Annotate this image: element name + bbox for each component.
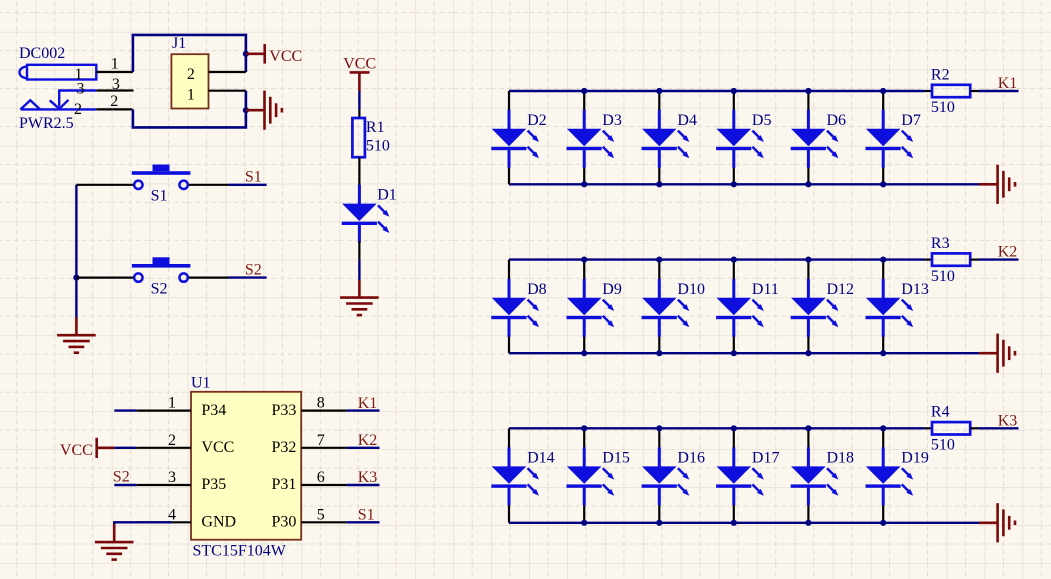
junction row R3 top col 6 (880, 257, 886, 263)
junction row R2 top col 5 (805, 88, 811, 94)
svg-text:510: 510 (931, 268, 955, 285)
LED D19 (866, 428, 914, 523)
junction row R3 top col 3 (656, 257, 662, 263)
junction row R4 top col 6 (880, 425, 886, 431)
wire D1 to ground (358, 259, 360, 280)
svg-text:1: 1 (111, 55, 119, 72)
U1 pin 7 (301, 447, 347, 449)
junction row R3 top col 2 (581, 257, 587, 263)
svg-text:6: 6 (317, 469, 325, 486)
svg-text:D19: D19 (901, 450, 929, 467)
junction row R2 bottom col 2 (581, 181, 587, 187)
resistor R4 pin 2 (970, 427, 978, 429)
resistor R1 pin 1 (358, 110, 360, 118)
LED D5 (716, 91, 764, 184)
svg-text:D10: D10 (677, 281, 705, 298)
resistor R2 body (932, 85, 970, 97)
U1 pin 5 (301, 521, 347, 523)
svg-text:P34: P34 (201, 402, 226, 419)
wire LED row R3 bottom rail (509, 352, 979, 354)
svg-text:K2: K2 (998, 244, 1018, 261)
svg-text:R3: R3 (931, 235, 950, 252)
svg-text:D3: D3 (602, 112, 622, 129)
wire net K1 (978, 90, 1018, 92)
wire net K1 (U1) (347, 409, 380, 411)
junction row R4 top col 4 (731, 425, 737, 431)
resistor R2 pin 1 (924, 90, 932, 92)
wire net S2 (U1 pin3) (114, 484, 136, 486)
resistor R3 pin 2 (970, 259, 978, 261)
wire LED row R2 top rail (509, 90, 924, 92)
wire net S2 (229, 276, 267, 278)
wire net K2 (U1) (347, 447, 380, 449)
svg-text:1: 1 (168, 395, 176, 412)
svg-text:D17: D17 (752, 450, 780, 467)
ground (row R2) (979, 165, 1015, 204)
resistor R3 pin 1 (924, 259, 932, 261)
junction row R4 bottom col 4 (731, 520, 737, 526)
push button S2 (132, 257, 191, 282)
svg-text:P35: P35 (201, 476, 226, 493)
U1 pin 4 (136, 521, 191, 523)
button S2 right pin (189, 277, 229, 279)
wire net K3 (978, 427, 1018, 429)
svg-text:D14: D14 (527, 450, 555, 467)
junction row R2 top col 4 (731, 88, 737, 94)
svg-text:3: 3 (168, 469, 176, 486)
junction row R3 bottom col 2 (581, 350, 587, 356)
svg-text:D8: D8 (527, 281, 547, 298)
LED D8 (491, 260, 539, 354)
junction row R3 bottom col 4 (731, 350, 737, 356)
wire VCC to R1 (358, 91, 360, 110)
junction row R4 top col 3 (656, 425, 662, 431)
svg-text:P31: P31 (271, 476, 296, 493)
svg-text:P30: P30 (271, 514, 296, 531)
U1 pin 1 (136, 410, 191, 412)
svg-text:DC002: DC002 (19, 45, 65, 62)
svg-text:VCC: VCC (343, 55, 376, 72)
wire net S1 (U1) (347, 521, 380, 523)
wire net K3 (U1) (347, 484, 380, 486)
junction row R2 bottom col 3 (656, 181, 662, 187)
svg-text:D2: D2 (527, 112, 547, 129)
ground (J1) (246, 91, 282, 130)
junction row R4 bottom col 6 (880, 520, 886, 526)
junction VCC node (243, 51, 249, 57)
LED D12 (791, 260, 839, 354)
resistor R4 pin 1 (924, 427, 932, 429)
resistor R3 body (932, 253, 970, 265)
DC002 pin 3 switch contact (50, 91, 97, 109)
svg-text:2: 2 (168, 432, 176, 449)
svg-text:K3: K3 (358, 469, 378, 486)
wire net K2 (978, 258, 1018, 260)
junction row R2 bottom col 6 (880, 181, 886, 187)
junction row R3 bottom col 6 (880, 350, 886, 356)
svg-text:2: 2 (187, 66, 195, 83)
ground (row R4) (979, 503, 1015, 542)
power VCC (U1 pin2) (97, 438, 115, 458)
junction row R4 bottom col 3 (656, 520, 662, 526)
svg-text:D9: D9 (602, 281, 622, 298)
wire LED row R2 bottom rail (509, 183, 979, 185)
junction GND node (243, 107, 249, 113)
svg-text:D15: D15 (602, 450, 630, 467)
junction row R3 bottom col 5 (805, 350, 811, 356)
svg-text:U1: U1 (191, 374, 211, 391)
svg-text:K2: K2 (358, 432, 378, 449)
DC002 pin 3 (96, 89, 133, 91)
LED D13 (866, 260, 914, 354)
wire LED row R3 top rail (509, 258, 924, 260)
connector DC002 barrel (19, 65, 96, 80)
svg-text:S1: S1 (358, 507, 375, 524)
LED D6 (791, 91, 839, 184)
svg-text:510: 510 (931, 99, 955, 116)
DC002 pin 1 (96, 71, 133, 73)
svg-text:K1: K1 (998, 75, 1018, 92)
ground (U1) (95, 524, 134, 559)
LED D14 (491, 428, 539, 523)
LED D7 (866, 91, 914, 184)
svg-text:STC15F104W: STC15F104W (193, 543, 287, 560)
svg-text:PWR2.5: PWR2.5 (19, 115, 74, 132)
svg-text:D5: D5 (752, 112, 772, 129)
svg-text:5: 5 (317, 506, 325, 523)
DC002 pin 2 sleeve (21, 100, 97, 109)
svg-text:D7: D7 (901, 112, 921, 129)
svg-text:D4: D4 (677, 112, 697, 129)
svg-text:S2: S2 (113, 469, 130, 486)
U1 pin 3 (136, 484, 191, 486)
svg-text:R4: R4 (931, 404, 950, 421)
IC U1 body (191, 392, 301, 540)
wire U1 pin 2 stub (114, 447, 136, 449)
U1 pin 6 (301, 484, 347, 486)
svg-text:J1: J1 (172, 35, 186, 52)
svg-text:3: 3 (77, 80, 85, 97)
svg-text:1: 1 (187, 87, 195, 104)
resistor R4 body (932, 422, 970, 434)
DC002 pin 2 (96, 108, 132, 110)
junction row R3 bottom col 3 (656, 350, 662, 356)
svg-text:P33: P33 (271, 402, 296, 419)
svg-text:D16: D16 (677, 450, 705, 467)
svg-text:2: 2 (74, 101, 82, 118)
LED D9 (567, 260, 615, 354)
wire net S1 (229, 184, 267, 186)
wire DC002 pin1 to J1 top loop (133, 35, 246, 72)
LED D1 cathode pin (358, 241, 360, 259)
junction row R4 top col 2 (581, 425, 587, 431)
wire U1 pin 4 to ground (114, 522, 172, 525)
button S2 left pin (76, 277, 133, 279)
svg-text:7: 7 (317, 432, 325, 449)
J1 pin 1 (209, 90, 246, 92)
svg-text:VCC: VCC (60, 442, 93, 459)
junction S2 common (73, 275, 79, 281)
U1 pin 8 (301, 410, 347, 412)
wire LED row R4 bottom rail (509, 522, 979, 524)
svg-text:S1: S1 (151, 188, 168, 205)
junction row R2 bottom col 5 (805, 181, 811, 187)
junction row R2 top col 6 (880, 88, 886, 94)
button S1 right pin (189, 184, 229, 186)
LED D1 (342, 185, 390, 243)
LED D17 (716, 428, 764, 523)
svg-text:2: 2 (110, 93, 118, 110)
svg-text:S2: S2 (151, 280, 168, 297)
svg-text:4: 4 (168, 506, 176, 523)
LED D2 (491, 91, 539, 184)
svg-text:R1: R1 (366, 119, 385, 136)
svg-text:D12: D12 (827, 281, 855, 298)
wire U1 pin 1 stub (114, 409, 136, 411)
svg-text:K1: K1 (358, 395, 378, 412)
junction row R3 top col 5 (805, 257, 811, 263)
power VCC (R1) (350, 72, 370, 91)
resistor R2 pin 2 (970, 90, 978, 92)
LED D16 (642, 428, 690, 523)
svg-text:GND: GND (201, 514, 236, 531)
svg-text:8: 8 (317, 395, 325, 412)
connector J1 body (171, 54, 208, 108)
LED D3 (567, 91, 615, 184)
svg-text:D18: D18 (827, 450, 855, 467)
power VCC (J1) (246, 44, 265, 64)
U1 pin 2 (136, 447, 191, 449)
svg-text:S2: S2 (245, 262, 262, 279)
ground (row R3) (979, 334, 1015, 373)
junction row R4 top col 5 (805, 425, 811, 431)
junction row R4 bottom col 5 (805, 520, 811, 526)
LED D18 (791, 428, 839, 523)
ground (buttons) (57, 317, 96, 352)
svg-text:510: 510 (931, 437, 955, 454)
junction row R2 bottom col 4 (731, 181, 737, 187)
junction row R4 bottom col 2 (581, 520, 587, 526)
svg-text:D13: D13 (901, 281, 929, 298)
svg-text:D1: D1 (377, 186, 397, 203)
wire LED row R4 top rail (509, 427, 924, 429)
svg-text:S1: S1 (245, 169, 262, 186)
ground (D1) (340, 280, 379, 315)
push button S1 (132, 165, 191, 190)
junction row R3 top col 4 (731, 257, 737, 263)
svg-text:D11: D11 (752, 281, 779, 298)
LED D10 (642, 260, 690, 354)
svg-text:D6: D6 (827, 112, 847, 129)
svg-text:P32: P32 (271, 439, 296, 456)
wire S1/S2 common to ground (75, 185, 77, 318)
svg-text:3: 3 (112, 76, 120, 93)
svg-text:K3: K3 (998, 412, 1018, 429)
svg-text:VCC: VCC (269, 48, 302, 65)
wire DC002 pin2 to J1 bottom loop (133, 91, 246, 128)
button S1 left pin (76, 184, 133, 186)
LED D15 (567, 428, 615, 523)
resistor R1 pin 2 (358, 157, 360, 187)
resistor R1 body (352, 118, 365, 157)
junction row R2 top col 2 (581, 88, 587, 94)
LED D4 (642, 91, 690, 184)
junction row R2 top col 3 (656, 88, 662, 94)
J1 pin 2 (209, 71, 246, 73)
svg-text:510: 510 (366, 138, 390, 155)
svg-text:VCC: VCC (201, 439, 234, 456)
LED D11 (716, 260, 764, 354)
svg-text:R2: R2 (931, 66, 950, 83)
